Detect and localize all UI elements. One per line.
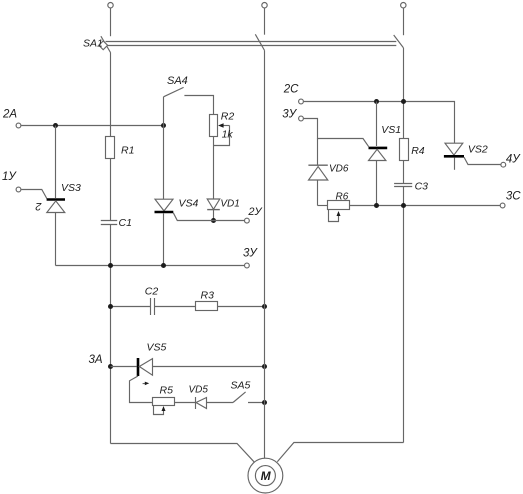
svg-text:1У: 1У bbox=[2, 171, 17, 183]
svg-text:C2: C2 bbox=[145, 286, 159, 298]
wire R1 to C1 bbox=[110, 159, 112, 221]
wire R4 to C3 bbox=[403, 161, 405, 184]
wire SA4 to R2 bbox=[184, 96, 213, 115]
svg-text:R3: R3 bbox=[201, 290, 215, 302]
switch SA1 linkage bus bbox=[106, 41, 397, 43]
wire R5 to VD5 bbox=[175, 402, 196, 404]
wire VS5 gate bbox=[130, 376, 153, 403]
svg-text:SA1: SA1 bbox=[83, 38, 103, 50]
svg-text:VD5: VD5 bbox=[189, 385, 209, 396]
node C2 row right junction bbox=[262, 304, 267, 309]
svg-text:C3: C3 bbox=[415, 181, 429, 193]
switch SA4 lead bbox=[163, 97, 165, 126]
terminal top phase C bbox=[401, 2, 406, 7]
wire bottom left horizontal bbox=[111, 444, 255, 462]
wire right feeder lower bbox=[403, 206, 405, 443]
thyristor VS4 bbox=[163, 126, 165, 200]
wire R3 to middle feeder bbox=[218, 306, 265, 308]
rheostat R5 bbox=[153, 398, 175, 406]
VS5 direction arrow bbox=[143, 382, 147, 384]
wire C2 to R3 bbox=[155, 306, 196, 308]
rheostat R6 bbox=[318, 205, 328, 207]
node 3A row left junction bbox=[108, 364, 113, 369]
svg-text:VS1: VS1 bbox=[381, 124, 401, 136]
terminal 3C bbox=[500, 203, 505, 208]
terminal 1У bbox=[16, 187, 21, 192]
resistor R3 bbox=[196, 302, 218, 311]
node 2A-VS3 junction bbox=[53, 123, 58, 128]
wire SA5 to middle feeder bbox=[248, 402, 265, 404]
capacitor C3 bbox=[394, 183, 412, 185]
svg-text:SA5: SA5 bbox=[231, 380, 251, 392]
wire left feeder lower bbox=[110, 225, 112, 444]
wire R2 to VD1 bbox=[213, 137, 215, 200]
capacitor C1 bbox=[101, 220, 117, 222]
wire 3A row left bbox=[111, 366, 137, 368]
R5 wiper bracket bbox=[154, 406, 164, 415]
R6 wiper bracket bbox=[329, 210, 339, 222]
node 2C-VS1 junction bbox=[374, 99, 379, 104]
terminal 3У left bbox=[245, 263, 250, 268]
terminal 2A bbox=[16, 123, 21, 128]
svg-text:1k: 1k bbox=[222, 129, 234, 141]
potentiometer R2 bbox=[210, 115, 218, 137]
wire bottom right horizontal bbox=[277, 443, 403, 462]
resistor R1 bbox=[106, 137, 115, 159]
capacitor C2 bbox=[150, 298, 152, 315]
terminal 4У bbox=[501, 162, 506, 167]
terminal 2C bbox=[299, 99, 304, 104]
svg-text:2A: 2A bbox=[2, 109, 17, 121]
wire 2C line bbox=[304, 102, 455, 144]
terminal top phase A bbox=[108, 2, 113, 7]
terminal top phase B bbox=[262, 2, 267, 7]
diode VD1 bbox=[207, 199, 220, 209]
svg-text:2: 2 bbox=[35, 200, 42, 212]
svg-text:3У: 3У bbox=[282, 109, 297, 121]
wire C2 row left bbox=[111, 306, 151, 308]
svg-text:R6: R6 bbox=[336, 192, 349, 203]
terminal 3У right bbox=[299, 116, 304, 121]
wire right feeder upper bbox=[403, 48, 405, 139]
node 3C-R4 junction bbox=[401, 203, 406, 208]
wire bbox=[264, 8, 266, 35]
svg-text:VS3: VS3 bbox=[61, 182, 81, 194]
switch SA1 handle diamond bbox=[99, 41, 108, 50]
wire bbox=[110, 8, 112, 36]
thyristor VS3 bbox=[55, 126, 57, 199]
resistor R4 bbox=[400, 139, 409, 161]
diode VD5 bbox=[195, 397, 197, 409]
switch SA1 pole 3 blade bbox=[394, 35, 404, 48]
wire VD5 to SA5 bbox=[207, 402, 234, 404]
svg-text:4У: 4У bbox=[506, 154, 521, 166]
thyristor VS1 bbox=[376, 102, 378, 147]
node 3C-VS1 junction bbox=[374, 203, 379, 208]
switch SA1 pole 1 blade bbox=[101, 36, 111, 52]
svg-text:C1: C1 bbox=[119, 217, 132, 229]
node 2C-R4 junction bbox=[401, 99, 406, 104]
wire middle feeder bbox=[264, 50, 266, 458]
node VD1-2У junction bbox=[211, 218, 216, 223]
switch SA4 blade bbox=[164, 87, 184, 96]
svg-text:VS2: VS2 bbox=[468, 144, 488, 156]
R2 wiper arrow bbox=[222, 125, 230, 127]
wire C3 to 3C node bbox=[403, 187, 405, 206]
wire 1У gate lead bbox=[21, 190, 47, 199]
node 2A-SA4 junction bbox=[161, 123, 166, 128]
svg-text:SA4: SA4 bbox=[167, 75, 188, 87]
wire 3C line bbox=[377, 205, 501, 207]
node 3У-left-feeder junction bbox=[108, 263, 113, 268]
svg-text:3A: 3A bbox=[89, 354, 103, 366]
terminal 2У bbox=[245, 218, 250, 223]
wire VS4 gate to 2У bbox=[173, 213, 244, 221]
wire left feeder upper bbox=[110, 53, 112, 137]
switch SA1 pole 2 blade bbox=[255, 34, 264, 50]
svg-text:R2: R2 bbox=[221, 111, 235, 123]
node C2 row left junction bbox=[108, 304, 113, 309]
svg-text:3У: 3У bbox=[243, 248, 258, 260]
diode VD6 bbox=[317, 139, 319, 166]
svg-text:VD1: VD1 bbox=[220, 199, 239, 210]
svg-text:R5: R5 bbox=[160, 385, 174, 397]
node 3У-VS4 junction bbox=[161, 263, 166, 268]
thyristor VS5 bbox=[137, 358, 140, 376]
wire R6 to 3C line bbox=[350, 205, 377, 207]
svg-text:2C: 2C bbox=[283, 84, 299, 96]
motor M bbox=[248, 458, 283, 493]
switch SA5 blade bbox=[233, 392, 246, 403]
thyristor VS2 bbox=[445, 143, 463, 155]
svg-text:R4: R4 bbox=[411, 145, 425, 157]
svg-text:3C: 3C bbox=[506, 191, 521, 203]
wire 3У to VS1 gate bbox=[304, 119, 369, 147]
svg-text:VD6: VD6 bbox=[329, 164, 349, 175]
svg-text:VS5: VS5 bbox=[147, 342, 167, 354]
wire VS2 gate to 4У bbox=[464, 157, 501, 164]
svg-text:2У: 2У bbox=[247, 206, 262, 218]
wire 3У line bbox=[56, 265, 245, 267]
wire bbox=[403, 8, 405, 35]
svg-text:M: M bbox=[261, 469, 272, 483]
node R5 row right junction bbox=[262, 400, 267, 405]
wire 2A line bbox=[21, 125, 163, 127]
svg-text:R1: R1 bbox=[121, 145, 134, 157]
wire R2 wiper loop bbox=[214, 126, 230, 146]
node 3A row right junction bbox=[262, 364, 267, 369]
svg-text:VS4: VS4 bbox=[179, 198, 199, 210]
